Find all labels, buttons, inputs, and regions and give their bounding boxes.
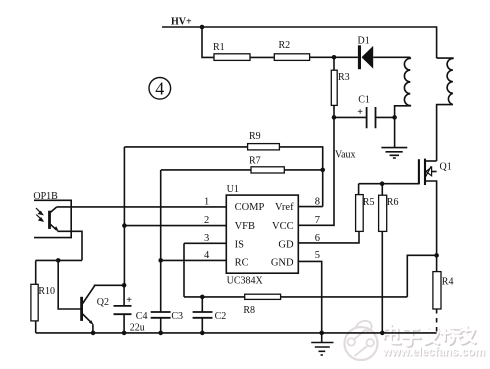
svg-text:4: 4 (204, 250, 210, 261)
svg-text:R3: R3 (338, 72, 350, 83)
svg-text:R6: R6 (387, 197, 399, 208)
svg-text:2: 2 (204, 215, 209, 226)
svg-text:1: 1 (204, 197, 209, 208)
svg-text:22u: 22u (130, 322, 145, 333)
svg-text:R9: R9 (249, 131, 261, 142)
svg-text:+: + (357, 107, 363, 118)
svg-text:R7: R7 (249, 155, 261, 166)
svg-text:D1: D1 (358, 36, 370, 47)
svg-text:Vaux: Vaux (335, 150, 356, 161)
svg-text:7: 7 (315, 215, 320, 226)
svg-text:3: 3 (204, 233, 209, 244)
svg-text:R4: R4 (442, 277, 454, 288)
svg-text:R10: R10 (38, 286, 55, 297)
svg-text:GND: GND (271, 258, 294, 269)
svg-text:4: 4 (155, 79, 164, 99)
svg-text:VCC: VCC (272, 221, 294, 232)
svg-text:C1: C1 (358, 94, 370, 105)
svg-text:R1: R1 (213, 42, 225, 53)
svg-text:C4: C4 (136, 311, 148, 322)
svg-text:6: 6 (315, 233, 320, 244)
svg-text:Q1: Q1 (440, 162, 452, 173)
svg-text:Q2: Q2 (97, 297, 109, 308)
svg-text:R2: R2 (279, 40, 291, 51)
svg-text:Vref: Vref (275, 202, 294, 213)
svg-text:HV+: HV+ (171, 17, 192, 28)
svg-text:C2: C2 (215, 311, 227, 322)
svg-text:IS: IS (235, 239, 244, 250)
svg-text:5: 5 (315, 250, 320, 261)
svg-text:UC384X: UC384X (227, 275, 264, 286)
svg-text:+: + (126, 295, 132, 306)
svg-text:www.elecfans.com: www.elecfans.com (382, 347, 485, 359)
svg-text:GD: GD (278, 239, 294, 250)
svg-text:C3: C3 (171, 311, 183, 322)
svg-text:R5: R5 (363, 197, 375, 208)
svg-text:R8: R8 (243, 305, 255, 316)
svg-text:8: 8 (315, 197, 320, 208)
svg-text:U1: U1 (227, 184, 239, 195)
svg-text:RC: RC (235, 258, 249, 269)
svg-text:COMP: COMP (235, 202, 265, 213)
svg-text:VFB: VFB (235, 221, 255, 232)
svg-text:OP1B: OP1B (33, 191, 58, 202)
